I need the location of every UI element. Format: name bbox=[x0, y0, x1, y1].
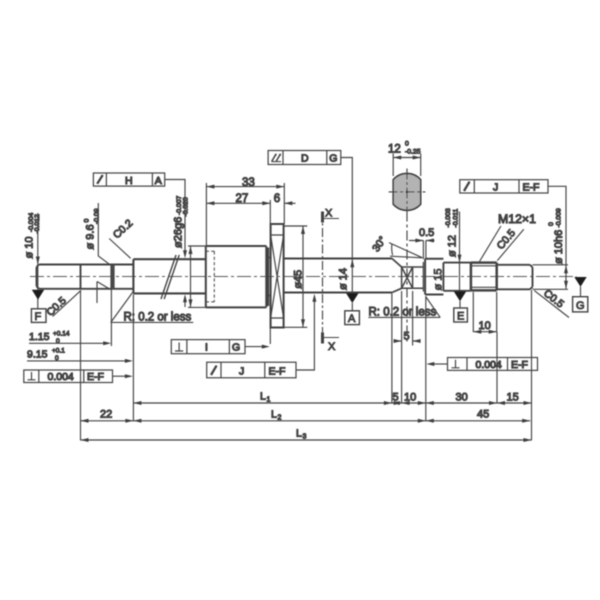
thread root bbox=[472, 266, 496, 288]
svg-text:H: H bbox=[125, 175, 133, 187]
wire leader 0.004 left bbox=[113, 374, 133, 378]
centerline bbox=[30, 276, 577, 278]
section X-X circle bbox=[389, 169, 426, 212]
svg-text:J: J bbox=[239, 365, 244, 377]
svg-text:33: 33 bbox=[242, 177, 255, 189]
svg-text:0.004: 0.004 bbox=[476, 359, 502, 371]
svg-text:12: 12 bbox=[388, 144, 401, 156]
svg-text:D: D bbox=[301, 153, 309, 165]
shaft thread section bbox=[133, 259, 205, 293]
svg-text:0: 0 bbox=[56, 338, 60, 345]
label C0.5 left bbox=[44, 290, 81, 318]
ext lines bottom bbox=[81, 290, 532, 440]
svg-text:I: I bbox=[205, 342, 208, 354]
frame perp I G bbox=[171, 340, 245, 354]
wire ext right end bbox=[533, 265, 569, 290]
svg-text:E: E bbox=[457, 311, 464, 323]
dim 9.15 bbox=[27, 348, 133, 363]
circlip groove bbox=[111, 265, 114, 289]
break marks bbox=[161, 255, 179, 299]
svg-text:L: L bbox=[296, 428, 302, 440]
svg-text:0: 0 bbox=[405, 141, 409, 148]
wire leader J E-F lower bbox=[296, 294, 316, 370]
svg-text:ø 9.6: ø 9.6 bbox=[85, 224, 97, 249]
svg-text:2: 2 bbox=[278, 415, 282, 422]
svg-text:J: J bbox=[493, 181, 498, 193]
disc bbox=[271, 224, 284, 328]
svg-text:5: 5 bbox=[393, 392, 399, 404]
svg-text:A: A bbox=[348, 313, 356, 325]
note 30deg bbox=[370, 234, 422, 257]
svg-text:-0.009: -0.009 bbox=[555, 208, 562, 227]
datum A bbox=[345, 293, 360, 325]
svg-text:G: G bbox=[329, 153, 337, 165]
nut body bbox=[206, 246, 268, 307]
dim 5 flats bbox=[394, 291, 421, 346]
svg-text:-0.020: -0.020 bbox=[183, 197, 190, 216]
svg-text:1: 1 bbox=[267, 397, 271, 404]
svg-text:-0.011: -0.011 bbox=[452, 209, 459, 228]
svg-text:3: 3 bbox=[303, 434, 307, 441]
frame runout J E-F upper bbox=[460, 180, 548, 194]
dim o26g6 bbox=[172, 196, 206, 308]
svg-text:22: 22 bbox=[100, 409, 112, 421]
svg-text:G: G bbox=[576, 300, 585, 312]
frame perp 0.004 E-F left bbox=[24, 370, 113, 383]
svg-text:15: 15 bbox=[507, 392, 519, 404]
svg-text:ø 10: ø 10 bbox=[24, 236, 36, 258]
label C0.2 bbox=[109, 217, 135, 258]
svg-text:-0.003: -0.003 bbox=[445, 208, 452, 227]
svg-text:E-F: E-F bbox=[269, 365, 286, 377]
dim o9.6 bbox=[83, 203, 111, 303]
section mark X top bbox=[323, 208, 340, 223]
dim o12 + datum E bbox=[445, 208, 462, 291]
svg-text:E-F: E-F bbox=[511, 359, 528, 371]
svg-text:0: 0 bbox=[83, 219, 90, 223]
svg-text:-0.25: -0.25 bbox=[405, 149, 421, 156]
shaft o12 section bbox=[443, 263, 471, 291]
neck bbox=[266, 258, 270, 296]
svg-text:C0.2: C0.2 bbox=[111, 217, 136, 241]
svg-text:E-F: E-F bbox=[523, 181, 540, 193]
wire leader D G bbox=[341, 158, 353, 259]
dim 10 thread bbox=[473, 292, 496, 334]
svg-text:C0.5: C0.5 bbox=[44, 295, 69, 319]
svg-text:ø 14: ø 14 bbox=[338, 268, 350, 290]
svg-text:L: L bbox=[260, 391, 266, 403]
svg-text:0.004: 0.004 bbox=[48, 371, 74, 383]
wire leader 0.004 right bbox=[426, 362, 447, 366]
svg-text:E-F: E-F bbox=[87, 371, 104, 383]
wire section projection bbox=[406, 212, 408, 345]
svg-text:ø 10h6: ø 10h6 bbox=[553, 230, 565, 264]
svg-text:M12×1: M12×1 bbox=[498, 212, 536, 226]
shaft left journal bbox=[37, 265, 134, 289]
note R left bbox=[111, 292, 194, 323]
svg-text:ø26g6: ø26g6 bbox=[172, 217, 184, 248]
label C0.5 mid bbox=[495, 227, 524, 260]
svg-text:ø 12: ø 12 bbox=[447, 235, 459, 257]
dim 1.15 bbox=[29, 331, 111, 346]
label C0.5 right bbox=[534, 287, 569, 317]
note R right bbox=[368, 297, 440, 319]
wire ext groove bbox=[110, 289, 112, 346]
dim 27 bbox=[206, 193, 270, 224]
svg-text:30°: 30° bbox=[370, 234, 389, 254]
svg-text:0: 0 bbox=[55, 355, 59, 362]
svg-text:L: L bbox=[271, 409, 277, 421]
shaft o10h6 section bbox=[497, 265, 533, 290]
dim 12 flats bbox=[388, 141, 421, 177]
dim o10h6 bbox=[548, 195, 568, 289]
svg-text:-0.012: -0.012 bbox=[34, 214, 41, 233]
frame runout J E-F lower bbox=[207, 362, 296, 378]
hidden recess bbox=[206, 251, 217, 302]
svg-text:-0.09: -0.09 bbox=[93, 208, 100, 224]
svg-text:F: F bbox=[35, 311, 42, 323]
dim o14 + datum A bbox=[338, 259, 355, 293]
datum G bbox=[573, 277, 588, 312]
thread M12 bbox=[471, 263, 497, 291]
dim L1 chain bbox=[133, 391, 531, 406]
chamfer 30deg bbox=[392, 259, 402, 293]
frame total runout D G bbox=[268, 151, 341, 165]
svg-text:A: A bbox=[155, 175, 162, 187]
svg-text:+0.14: +0.14 bbox=[53, 331, 70, 338]
shaft o15 section bbox=[425, 259, 443, 295]
svg-text:+0.1: +0.1 bbox=[52, 348, 65, 355]
svg-text:ø 15: ø 15 bbox=[433, 268, 445, 290]
svg-text:G: G bbox=[232, 342, 240, 354]
svg-text:45: 45 bbox=[477, 409, 489, 421]
svg-text:0: 0 bbox=[548, 222, 555, 226]
svg-text:0.5: 0.5 bbox=[419, 227, 434, 239]
dim L3 bbox=[81, 428, 532, 443]
frame perp 0.004 E-F right bbox=[448, 358, 538, 371]
datum E bbox=[454, 291, 468, 322]
neck outline bbox=[402, 267, 424, 288]
svg-text:9.15: 9.15 bbox=[27, 349, 48, 361]
frame runout H A bbox=[93, 173, 164, 187]
svg-text:10: 10 bbox=[404, 392, 416, 404]
shaft o14 section bbox=[284, 259, 392, 293]
section cut line X-X bbox=[322, 212, 324, 344]
flats box bbox=[402, 267, 413, 288]
svg-text:X: X bbox=[325, 208, 333, 220]
label M12x1 bbox=[480, 212, 537, 262]
dim o10 left + datum F bbox=[24, 213, 42, 309]
svg-text:30: 30 bbox=[456, 392, 468, 404]
svg-text:1.15: 1.15 bbox=[29, 331, 50, 343]
svg-text:X: X bbox=[328, 341, 336, 353]
svg-text:6: 6 bbox=[274, 193, 280, 205]
svg-text:C0.5: C0.5 bbox=[541, 287, 566, 310]
dim o45 bbox=[284, 226, 308, 327]
dim 22 L2 45 bbox=[81, 409, 531, 423]
svg-text:ø45: ø45 bbox=[293, 270, 305, 289]
wire leader I G bbox=[245, 296, 270, 349]
datum F bbox=[31, 290, 46, 323]
dim 6 bbox=[274, 193, 296, 205]
svg-text:27: 27 bbox=[236, 193, 249, 205]
wire leader H A bbox=[165, 180, 187, 308]
groove 0.5 bbox=[422, 262, 424, 292]
wire leader J E-F upper bbox=[548, 186, 566, 195]
section mark X bottom bbox=[323, 333, 340, 354]
dim 0.5 groove bbox=[409, 227, 435, 259]
svg-text:10: 10 bbox=[479, 320, 491, 332]
dim 33 bbox=[206, 177, 284, 246]
svg-text:5: 5 bbox=[404, 331, 410, 343]
